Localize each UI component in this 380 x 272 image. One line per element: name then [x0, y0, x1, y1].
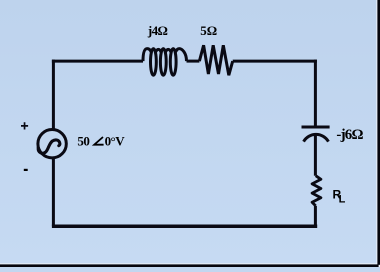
voltage source V1 circle: [38, 130, 66, 158]
frame light line bottom: [0, 263, 380, 264]
wire bottom: [52, 225, 317, 229]
sine wave symbol: [38, 140, 60, 153]
minus sign: [24, 169, 28, 171]
frame white corner notch: [379, 265, 380, 267]
resistor RL zigzag: [312, 176, 321, 206]
wire right vertical upper: [314, 60, 317, 127]
capacitor C1 flat plate: [302, 126, 330, 129]
svg-text:50: 50: [77, 134, 89, 149]
svg-text:5Ω: 5Ω: [200, 23, 217, 38]
wire left vertical upper: [52, 60, 55, 130]
svg-text:-j6Ω: -j6Ω: [336, 127, 363, 143]
frame light line right: [376, 0, 377, 267]
wire right vertical middle: [314, 134, 317, 176]
svg-text:L: L: [339, 194, 346, 206]
wire left vertical lower: [52, 157, 55, 226]
capacitor C1 curved plate: [304, 134, 329, 141]
frame border right: [377, 0, 380, 267]
wire right vertical lower: [314, 206, 317, 226]
resistor R1 zigzag 5 ohm: [199, 45, 232, 75]
inductor L1 coil j4 ohm: [151, 49, 157, 76]
wire top-right horizontal: [233, 60, 317, 63]
plus sign: [21, 122, 28, 129]
svg-text:0°V: 0°V: [105, 134, 126, 149]
frame border bottom: [0, 264, 380, 267]
svg-text:j4Ω: j4Ω: [147, 23, 168, 38]
angle symbol: [94, 137, 103, 145]
wire top-left horizontal: [52, 60, 143, 63]
wire between inductor L1 and resistor R1: [187, 60, 200, 63]
